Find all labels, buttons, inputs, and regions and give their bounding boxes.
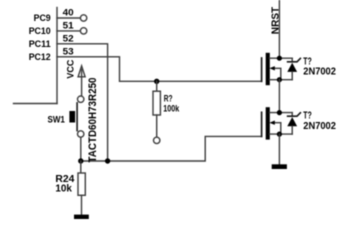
svg-text:2N7002: 2N7002 [303,67,336,78]
svg-text:PC10: PC10 [29,26,51,37]
switch SW1 actuator bar [76,103,78,131]
svg-text:53: 53 [63,47,74,57]
diode T2 body diode cathode bar [288,113,301,116]
wire VCC drop to switch [81,70,83,97]
svg-text:TACTD60H73R250: TACTD60H73R250 [87,78,99,163]
transistor T1 body stub [274,68,280,79]
svg-text:40: 40 [63,8,74,18]
transistor T1 gate electrode [261,58,263,81]
pin PC9 wire [57,17,80,19]
svg-text:PC9: PC9 [34,13,51,24]
transistor T2 drain stub [270,112,293,114]
pin PC9 open end circle [80,15,86,21]
transistor T1 channel bar [266,53,270,85]
svg-text:NRST: NRST [271,7,282,34]
transistor T2 body stub [274,123,280,134]
svg-text:PC12: PC12 [29,52,51,63]
diode T2 body diode cathode lead [291,113,293,117]
switch SW1 button [69,111,75,123]
transistor T1 drain stub [270,57,293,59]
node T1 source junction [277,77,282,82]
diode T1 body diode triangle [287,63,297,72]
diode T2 body diode triangle [287,117,297,126]
diode T1 body diode cathode bar [288,58,301,61]
transistor T2 gate electrode [261,112,263,136]
svg-text:51: 51 [63,21,74,31]
node T2 source junction [277,132,282,137]
wire bottom net rail to T2 gate [81,136,262,161]
node junction R? top [154,79,159,84]
wire T1 source to T2 drain [278,80,280,113]
wire R? to open end [156,115,158,137]
pin PC10 wire [57,30,80,32]
svg-text:SW1: SW1 [48,114,66,125]
diode T2 body diode anode lead [291,126,293,134]
transistor T2 body arrow [269,121,274,125]
pin PC10 open end circle [80,28,86,34]
wire gate rail to R? [156,81,158,91]
resistor R24 body [78,173,85,195]
MCU outline bottom edge [14,103,58,105]
wire net PC11: pin 52 to lower junction [57,44,108,161]
wire R24 to ground [81,195,83,214]
svg-text:10k: 10k [55,183,72,194]
ground symbol under R24 [74,215,89,219]
resistor R? body [153,91,160,115]
node T1 drain junction [277,56,282,61]
switch SW1 bottom contact [78,131,84,137]
transistor T2 channel bar [266,107,270,139]
svg-text:52: 52 [63,34,74,44]
switch SW1 top contact [78,96,84,102]
VCC supply arrow symbol [78,66,85,77]
R? open end circle [154,137,160,143]
wire junction to R24 [80,161,82,173]
node junction switch/R24 [78,158,83,163]
node junction PC11 net [105,158,110,163]
ground symbol under T2 [272,164,287,169]
wire T2 source to ground [278,134,280,164]
transistor T1 body arrow [269,66,274,70]
wire switch bottom to junction [80,137,82,161]
wire net PC12: pin 53 to gate rail [57,57,262,82]
wire NRST to T1 drain [278,0,280,58]
transistor T2 source stub [270,133,293,135]
node T2 drain junction [277,110,282,115]
svg-text:100k: 100k [163,103,179,114]
svg-text:VCC: VCC [65,60,76,79]
svg-text:2N7002: 2N7002 [303,121,336,132]
transistor T1 source stub [270,79,293,81]
diode T1 body diode anode lead [291,72,293,80]
svg-text:PC11: PC11 [29,39,52,50]
MCU outline right edge [56,8,58,104]
diode T1 body diode cathode lead [291,58,293,62]
